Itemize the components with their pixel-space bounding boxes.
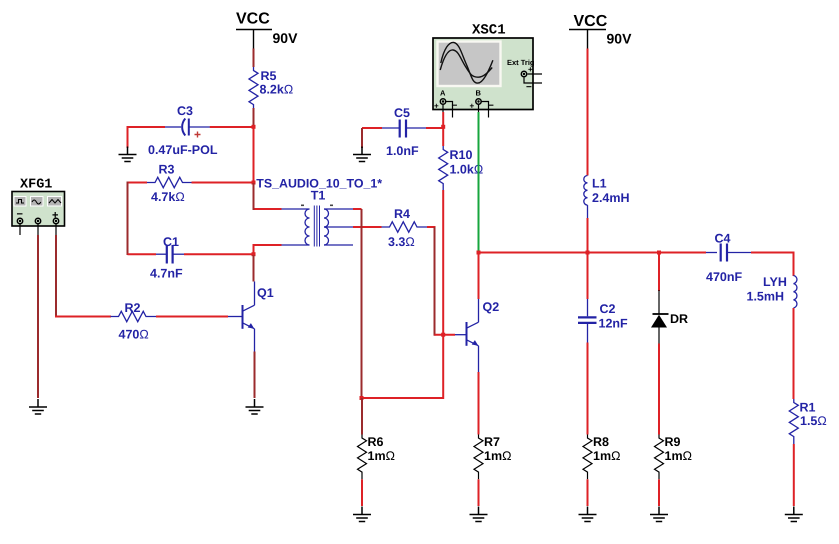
svg-text:C4: C4	[715, 232, 731, 246]
svg-text:C5: C5	[394, 106, 410, 120]
label LYH	[763, 275, 787, 289]
label Ext Trig	[507, 58, 535, 67]
XFG1 sine wave button	[31, 197, 44, 207]
wire R4 right lead	[427, 226, 436, 228]
value label 90V (right VCC)	[607, 31, 633, 47]
wire L1 to rail	[587, 218, 589, 252]
wire R5 to node C3	[253, 108, 255, 125]
wire C4 to LYH	[751, 252, 795, 254]
value 1.0nF	[386, 144, 419, 158]
svg-text:R4: R4	[394, 207, 410, 221]
wire R3 to node TS	[192, 182, 253, 184]
wire R1 to ground	[793, 444, 795, 506]
wire C5 node to R10	[442, 128, 444, 146]
label C2	[600, 302, 616, 316]
wire C1 junction to Q1 collector	[253, 255, 255, 282]
wire R7 to ground	[478, 479, 480, 506]
inductor L1	[584, 176, 588, 219]
XFG1 terminal minus	[17, 218, 22, 235]
value 8.2kOhm	[260, 83, 294, 97]
power VCC rail symbol (right)	[569, 13, 608, 49]
capacitor C5	[382, 120, 426, 138]
junction R3/vertical	[252, 181, 256, 185]
wire R3-C1 left vertical	[127, 182, 129, 256]
svg-text:C3: C3	[177, 104, 193, 118]
transformer T1 windings and core	[301, 205, 333, 247]
XFG1 minus label	[17, 209, 23, 221]
ground at R9	[650, 507, 668, 522]
svg-text:L1: L1	[592, 177, 607, 191]
wire C1 left lead	[128, 253, 157, 255]
svg-text:1mΩ: 1mΩ	[593, 449, 620, 463]
wire Q2 collector red	[478, 254, 480, 300]
wire detour horizontal	[362, 397, 444, 399]
svg-text:1.5Ω: 1.5Ω	[800, 414, 827, 428]
value 1.5Ohm	[800, 414, 827, 428]
resistor R4	[382, 222, 428, 232]
value 2.4mH	[592, 191, 630, 205]
wire Q2 base blue lead	[455, 334, 467, 336]
wire output rail	[478, 252, 707, 254]
value 4.7nF	[150, 267, 183, 281]
terminal A of scope	[434, 89, 458, 118]
wire R9 to ground	[658, 479, 660, 506]
wire LYH to R1	[793, 308, 795, 399]
wire Q2 emitter blue	[478, 346, 480, 372]
svg-text:1mΩ: 1mΩ	[665, 449, 692, 463]
wire node down R3-T1 top	[253, 183, 255, 210]
wire R6 to ground	[361, 479, 363, 506]
wire XFG1 plus down	[55, 235, 57, 317]
wire rail to C2	[587, 254, 589, 300]
wire C5 to ground	[361, 128, 363, 148]
junction base node	[441, 333, 445, 337]
svg-text:VCC: VCC	[574, 13, 608, 30]
svg-text:A: A	[440, 89, 446, 98]
label R5	[261, 69, 277, 83]
svg-text:VCC: VCC	[236, 11, 270, 28]
junction rail/DR	[657, 251, 661, 255]
resistor R8	[583, 435, 592, 480]
label R2	[125, 301, 141, 315]
capacitor C2	[578, 299, 597, 343]
label T1	[311, 189, 326, 203]
label L1	[592, 177, 607, 191]
svg-text:DR: DR	[670, 312, 688, 326]
XFG1 plus label	[52, 210, 58, 222]
wire Q1 base blue lead	[228, 316, 243, 318]
label DR	[670, 312, 688, 326]
label R6	[368, 435, 384, 449]
wire C1 to junction	[184, 253, 252, 255]
resistor R7	[474, 435, 483, 480]
wire rail to DR	[658, 254, 660, 292]
resistor R10	[439, 146, 448, 190]
svg-text:R7: R7	[484, 435, 500, 449]
XFG1 terminal common	[35, 218, 40, 235]
junction C1/T1	[252, 252, 256, 256]
XFG1 terminal plus	[53, 218, 58, 235]
label R1	[800, 401, 816, 415]
junction R5/C3	[252, 125, 256, 129]
label R9	[665, 435, 681, 449]
svg-text:T1: T1	[311, 189, 326, 203]
capacitor C4	[706, 244, 751, 262]
wire detour up to base node	[442, 335, 444, 399]
value 470Ohm	[119, 328, 149, 342]
transformer T1 primary leads	[255, 209, 310, 245]
oscilloscope screen	[438, 42, 501, 87]
svg-text:R3: R3	[159, 163, 175, 177]
svg-text:R5: R5	[261, 69, 277, 83]
svg-text:1mΩ: 1mΩ	[484, 449, 511, 463]
svg-text:+: +	[434, 102, 439, 111]
XFG1 square wave button	[14, 197, 26, 207]
svg-text:LYH: LYH	[763, 275, 787, 289]
terminal B of scope	[470, 89, 495, 118]
XFG1 triangle wave button	[48, 197, 62, 207]
value 1mOhm (R7)	[484, 449, 511, 463]
wire Q2 collector blue	[478, 299, 480, 322]
ground at R8	[579, 507, 597, 522]
svg-text:0.47uF-POL: 0.47uF-POL	[148, 143, 218, 157]
wire R10 down to Q2 base node	[442, 190, 444, 334]
ground at Q1	[246, 399, 264, 414]
svg-text:1.5mH: 1.5mH	[747, 290, 785, 304]
ground at C3	[119, 147, 137, 162]
transistor Q2	[467, 300, 500, 346]
wire C5 right lead	[426, 127, 443, 129]
value label 90V (left VCC)	[273, 30, 299, 46]
svg-text:R6: R6	[368, 435, 384, 449]
label C4	[715, 232, 731, 246]
svg-text:R9: R9	[665, 435, 681, 449]
value 12nF	[599, 317, 629, 331]
label R10	[450, 148, 473, 162]
svg-text:2.4mH: 2.4mH	[592, 191, 630, 205]
wire VCC to R5	[253, 49, 255, 68]
wire to R2	[55, 316, 111, 318]
ground at R1	[785, 507, 803, 522]
label C1	[163, 235, 179, 249]
ground at XFG1	[29, 399, 47, 414]
label C3	[177, 104, 193, 118]
value 3.3Ohm	[388, 235, 415, 249]
svg-text:R10: R10	[450, 148, 473, 162]
svg-text:12nF: 12nF	[599, 317, 629, 331]
diode DR	[651, 290, 669, 344]
svg-text:+: +	[528, 65, 533, 74]
resistor R2	[111, 311, 157, 321]
resistor R9	[655, 435, 664, 480]
svg-text:XSC1: XSC1	[472, 23, 506, 39]
resistor R5	[249, 67, 258, 108]
value 470nF	[706, 270, 742, 284]
transformer T1 secondary leads	[324, 209, 382, 245]
svg-text:C2: C2	[600, 302, 616, 316]
wire Q1 emitter to ground	[254, 352, 256, 399]
value 0.47uF-POL	[148, 143, 218, 157]
value 1mOhm (R6)	[368, 449, 395, 463]
label R8	[593, 435, 609, 449]
svg-text:1mΩ: 1mΩ	[368, 449, 395, 463]
capacitor C3 (polarized)	[165, 119, 210, 136]
wire Q1 emitter blue	[254, 329, 256, 352]
svg-text:3.3Ω: 3.3Ω	[388, 235, 415, 249]
svg-text:8.2kΩ: 8.2kΩ	[260, 83, 294, 97]
value 1mOhm (R9)	[665, 449, 692, 463]
wire VCC2 to L1	[587, 49, 589, 176]
svg-text:1.0nF: 1.0nF	[386, 144, 419, 158]
value 1.0kOhm	[450, 163, 484, 177]
wire C3 left down	[127, 126, 129, 148]
svg-text:470nF: 470nF	[706, 270, 742, 284]
svg-text:B: B	[476, 89, 482, 98]
inductor LYH	[794, 276, 797, 308]
instrument XFG1 body	[12, 192, 65, 227]
svg-text:R1: R1	[800, 401, 816, 415]
wire scope B green probe	[478, 112, 480, 252]
wire scope A to C5 node	[442, 112, 444, 126]
svg-text:Q1: Q1	[257, 286, 274, 300]
wire C3 left lead	[128, 126, 166, 128]
svg-text:Q2: Q2	[483, 300, 500, 314]
label C5	[394, 106, 410, 120]
svg-text:C1: C1	[163, 235, 179, 249]
label R7	[484, 435, 500, 449]
svg-text:90V: 90V	[273, 30, 299, 46]
wire LYH down	[793, 253, 795, 277]
svg-text:470Ω: 470Ω	[119, 328, 149, 342]
svg-text:4.7nF: 4.7nF	[150, 267, 183, 281]
svg-text:4.7kΩ: 4.7kΩ	[151, 190, 185, 204]
wire T1 bottom to C1 junction	[253, 244, 255, 253]
wire XFG1 common down	[37, 235, 39, 398]
wire Q2 emitter to R7	[478, 372, 480, 435]
svg-text:XFG1: XFG1	[20, 178, 52, 193]
wire R8 to ground	[587, 479, 589, 506]
wire R4 down to Q2 base	[434, 227, 436, 336]
wire R2 to Q1 base	[156, 316, 228, 318]
wire Q1 collector blue	[254, 282, 256, 306]
oscilloscope trace waveform	[440, 42, 493, 83]
resistor R6	[358, 435, 367, 480]
wire DR to R9	[658, 344, 660, 435]
transistor Q1	[243, 286, 274, 329]
power VCC rail symbol (left)	[236, 11, 272, 49]
ground at R7	[470, 507, 488, 522]
wire C2 to R8	[587, 343, 589, 435]
junction rail/L1	[586, 251, 590, 255]
label R3	[159, 163, 175, 177]
wire T1 secondary top down	[361, 209, 363, 399]
svg-text:R2: R2	[125, 301, 141, 315]
instrument title XSC1	[472, 23, 506, 39]
wire base node to Q2	[435, 334, 456, 336]
op-amp XSC1 oscilloscope body	[433, 38, 533, 110]
wire node down C3-R3	[253, 128, 255, 182]
junction rail/Q2	[477, 251, 481, 255]
wire R3 left lead	[128, 182, 148, 184]
junction detour/R6	[360, 396, 364, 400]
instrument title XFG1	[20, 178, 52, 193]
svg-text:R8: R8	[593, 435, 609, 449]
wire junction to R6	[361, 398, 363, 435]
svg-text:TS_AUDIO_10_TO_1*: TS_AUDIO_10_TO_1*	[256, 177, 382, 191]
wire C3 to ground	[210, 126, 253, 128]
junction C5/R10/scopeA	[441, 125, 445, 129]
value 4.7kOhm	[151, 190, 185, 204]
label R4	[394, 207, 410, 221]
net/model label TS_AUDIO_10_TO_1*	[256, 177, 382, 191]
wire C5 left corner	[362, 127, 382, 129]
resistor R3	[147, 177, 192, 187]
value 1mOhm (R8)	[593, 449, 620, 463]
plus mark of C3	[195, 132, 201, 138]
resistor R1	[789, 399, 798, 444]
terminal Ext Trig	[521, 65, 542, 93]
svg-text:+: +	[470, 102, 475, 111]
ground at C5	[353, 147, 371, 162]
svg-text:−: −	[526, 82, 532, 93]
value 1.5mH	[747, 290, 785, 304]
ground at R6	[353, 507, 371, 522]
svg-text:90V: 90V	[607, 31, 633, 47]
capacitor C1	[156, 245, 184, 264]
